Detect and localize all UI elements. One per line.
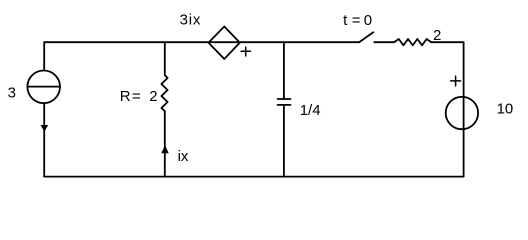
wire resistor R branch bottom: [164, 111, 166, 177]
svg-text:0: 0: [364, 12, 372, 29]
wire right rail: [463, 42, 465, 176]
svg-text:2: 2: [149, 88, 157, 105]
svg-text:2: 2: [433, 27, 441, 44]
wire bottom rail: [44, 176, 463, 178]
resistor R (vertical zigzag): [161, 75, 167, 111]
wire left rail lower: [43, 103, 45, 177]
wire resistor R branch top stub: [164, 42, 166, 75]
svg-text:10: 10: [497, 100, 514, 117]
wire switch to resistor: [374, 41, 394, 43]
current source bar: [27, 86, 60, 88]
capacitor plate top: [278, 98, 291, 100]
dependent source diamond 3ix: [209, 27, 240, 60]
resistor 2 (horizontal): [394, 39, 431, 45]
svg-text:=: =: [352, 12, 361, 29]
arrow of current source (down): [41, 125, 47, 130]
capacitor plate bottom: [278, 104, 291, 106]
current source I1 (3) circle: [27, 71, 60, 104]
wire capacitor branch bottom: [283, 105, 285, 177]
wire capacitor branch top stub: [283, 42, 285, 99]
switch t=0 blade: [359, 32, 373, 42]
plus sign of V1: [451, 76, 461, 86]
wire top rail left: [44, 41, 359, 43]
voltage source V1 (10) circle: [446, 97, 478, 129]
svg-text:1/4: 1/4: [300, 102, 321, 119]
svg-text:3: 3: [8, 85, 16, 102]
svg-text:3ix: 3ix: [180, 11, 202, 28]
arrow ix (up): [162, 146, 168, 153]
plus sign of dependent source: [241, 47, 250, 56]
svg-text:R: R: [120, 88, 131, 105]
svg-text:ix: ix: [178, 148, 189, 165]
svg-text:t: t: [343, 12, 348, 29]
svg-text:=: =: [132, 88, 141, 105]
wire resistor to top-right corner: [431, 41, 463, 43]
wire left rail upper: [43, 42, 45, 70]
